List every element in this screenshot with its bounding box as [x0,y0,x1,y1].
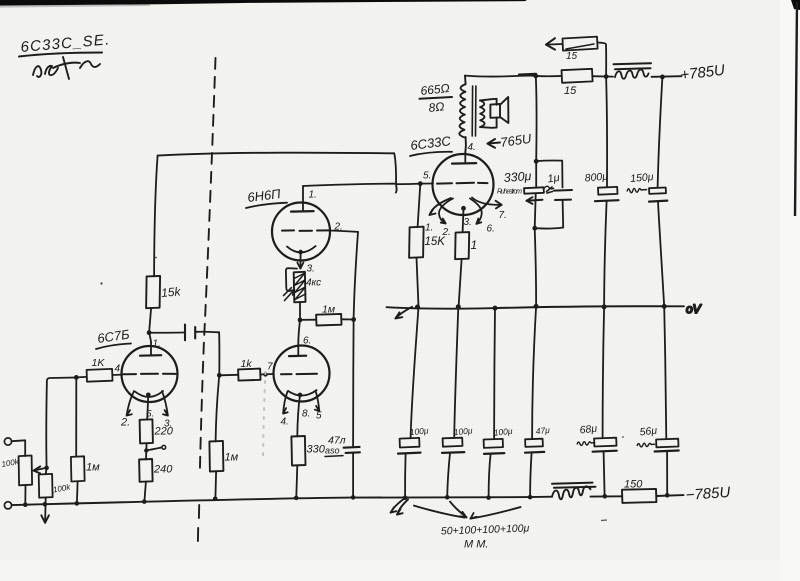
svg-text:15: 15 [564,85,577,97]
svg-text:M M.: M M. [464,539,488,551]
svg-text:15: 15 [566,51,578,62]
svg-text:5.: 5. [147,409,155,419]
svg-text:2.: 2. [334,222,343,233]
svg-text:800μ: 800μ [584,170,608,184]
svg-text:6.: 6. [303,336,311,347]
svg-text:1: 1 [471,238,478,252]
svg-text:1k: 1k [241,358,253,370]
svg-text:1.: 1. [153,339,161,350]
svg-text:1м: 1м [225,452,239,464]
svg-text:2.: 2. [120,417,130,429]
svg-text:1м: 1м [322,304,335,316]
svg-text:1.: 1. [309,190,317,201]
svg-text:7.: 7. [499,210,507,221]
svg-text:8.: 8. [302,409,310,420]
svg-text:3.: 3. [464,217,472,228]
svg-text:15k: 15k [161,284,182,300]
svg-text:100μ: 100μ [453,425,473,437]
svg-text:150: 150 [624,479,643,491]
svg-text:330μ: 330μ [503,169,532,185]
svg-text:220: 220 [154,426,174,438]
svg-text:100μ: 100μ [493,426,513,438]
svg-text:аso: аso [325,446,340,456]
svg-text:150μ: 150μ [630,171,654,185]
svg-text:−785U: −785U [685,484,731,504]
svg-text:68μ: 68μ [579,423,598,437]
svg-text:47μ: 47μ [535,425,550,436]
svg-text:Ruhestrom: Ruhestrom [497,189,522,196]
svg-text:3.: 3. [307,264,315,275]
svg-text:1.: 1. [425,223,433,234]
svg-text:15K: 15K [425,236,447,248]
svg-text:5.: 5. [423,171,431,182]
svg-text:oV: oV [686,302,702,316]
svg-text:4кс: 4кс [306,278,321,289]
svg-text:8Ω: 8Ω [428,99,445,115]
svg-text:1м: 1м [86,462,100,474]
svg-text:240: 240 [153,464,173,476]
svg-text:5: 5 [316,411,322,422]
svg-text:4.: 4. [468,142,476,153]
svg-text:1μ: 1μ [547,172,561,186]
svg-text:56μ: 56μ [639,425,658,439]
svg-text:1K: 1K [92,357,106,369]
svg-text:330: 330 [307,444,326,456]
svg-text:100μ: 100μ [409,425,429,437]
svg-text:4.: 4. [281,417,289,428]
svg-text:6.: 6. [487,224,495,235]
